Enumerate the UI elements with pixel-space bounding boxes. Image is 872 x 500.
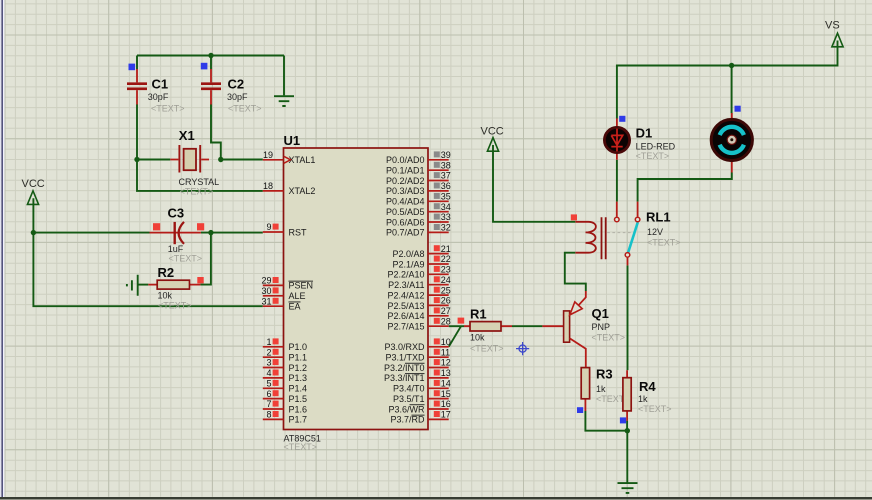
svg-text:7: 7 bbox=[266, 399, 271, 409]
svg-text:P1.5: P1.5 bbox=[289, 394, 308, 404]
wire R4 bottom stub bbox=[626, 421, 628, 431]
wire C1 stubs bbox=[136, 56, 138, 160]
resistor R1 bbox=[458, 307, 512, 354]
svg-text:P0.4/AD4: P0.4/AD4 bbox=[386, 197, 425, 207]
resistor R3 bbox=[577, 367, 630, 414]
ground (crystal net) bbox=[274, 96, 294, 106]
svg-text:<TEXT>: <TEXT> bbox=[151, 104, 185, 114]
junction node R3/R4/ground bbox=[625, 428, 630, 433]
relay RL1 labels bbox=[646, 210, 681, 248]
svg-text:P1.0: P1.0 bbox=[289, 342, 308, 352]
svg-text:P0.1/AD1: P0.1/AD1 bbox=[386, 166, 425, 176]
svg-text:P1.3: P1.3 bbox=[289, 373, 308, 383]
svg-text:<TEXT>: <TEXT> bbox=[169, 254, 203, 264]
svg-text:P2.0/A8: P2.0/A8 bbox=[392, 249, 424, 259]
capacitor C3 bbox=[150, 205, 205, 263]
pin 21 P2.0/A8 (right) bbox=[392, 244, 450, 259]
pin 32 P0.7/AD7 (right) bbox=[386, 223, 451, 238]
pin 33 P0.6/AD6 (right) bbox=[386, 212, 451, 227]
svg-text:ALE: ALE bbox=[289, 291, 306, 301]
pin 15 P3.5/T1 (right) bbox=[393, 389, 451, 404]
pin 14 P3.4/T0 (right) bbox=[393, 379, 451, 394]
svg-text:<TEXT>: <TEXT> bbox=[158, 301, 192, 311]
pin 31 EA (left) bbox=[261, 296, 300, 311]
svg-text:10k: 10k bbox=[470, 333, 485, 343]
svg-text:C1: C1 bbox=[152, 77, 169, 92]
svg-text:35: 35 bbox=[441, 192, 451, 202]
transistor Q1 PNP bbox=[542, 291, 625, 368]
svg-text:36: 36 bbox=[441, 181, 451, 191]
capacitor C1 bbox=[127, 64, 185, 114]
junction node C2 top bbox=[208, 53, 213, 58]
svg-text:P2.1/A9: P2.1/A9 bbox=[392, 259, 424, 269]
wire XTAL1 net bbox=[137, 159, 263, 161]
ground (bottom) bbox=[618, 483, 638, 493]
svg-text:1k: 1k bbox=[596, 384, 606, 394]
svg-text:XTAL1: XTAL1 bbox=[289, 155, 316, 165]
relay RL1 link (dashed) bbox=[607, 232, 633, 234]
svg-text:18: 18 bbox=[263, 181, 273, 191]
svg-text:23: 23 bbox=[441, 265, 451, 275]
wire motor to relay contact bbox=[638, 173, 732, 202]
pin 36 P0.3/AD3 (right) bbox=[386, 181, 451, 196]
relay RL1 core bbox=[602, 217, 606, 259]
svg-text:1k: 1k bbox=[638, 394, 648, 404]
svg-text:21: 21 bbox=[441, 244, 451, 254]
svg-text:P1.7: P1.7 bbox=[289, 415, 308, 425]
crystal X1 bbox=[170, 128, 219, 197]
svg-text:P3.1/TXD: P3.1/TXD bbox=[385, 353, 425, 363]
svg-text:1uF: 1uF bbox=[168, 244, 184, 254]
svg-text:R1: R1 bbox=[470, 307, 487, 322]
svg-text:31: 31 bbox=[261, 296, 271, 306]
svg-text:4: 4 bbox=[266, 368, 271, 378]
svg-text:8: 8 bbox=[266, 410, 271, 420]
svg-text:34: 34 bbox=[441, 202, 451, 212]
pin 1 P1.0 (left) bbox=[263, 337, 307, 352]
svg-text:<TEXT>: <TEXT> bbox=[228, 104, 262, 114]
svg-text:P0.6/AD6: P0.6/AD6 bbox=[386, 217, 425, 227]
svg-text:P2.3/A11: P2.3/A11 bbox=[388, 280, 424, 290]
wire XTAL top net bbox=[137, 56, 284, 96]
svg-text:17: 17 bbox=[441, 410, 451, 420]
pin 39 P0.0/AD0 (right) bbox=[386, 150, 451, 165]
svg-text:29: 29 bbox=[261, 276, 271, 286]
svg-text:LED-RED: LED-RED bbox=[636, 142, 676, 152]
wire junction to ground bbox=[626, 431, 628, 483]
svg-text:<TEXT>: <TEXT> bbox=[470, 344, 504, 354]
junction node VS/motor bbox=[729, 63, 734, 68]
relay RL1 contacts bbox=[615, 202, 640, 266]
pin 27 P2.6/A14 (right) bbox=[387, 306, 450, 321]
svg-text:<TEXT>: <TEXT> bbox=[636, 151, 670, 161]
wire VS net bbox=[617, 41, 838, 119]
svg-text:P0.0/AD0: P0.0/AD0 bbox=[386, 155, 425, 165]
wire XTAL2 net bbox=[137, 160, 263, 191]
svg-text:P1.1: P1.1 bbox=[289, 353, 308, 363]
pin 10 P3.0/RXD (right) bbox=[384, 337, 450, 352]
svg-text:P2.6/A14: P2.6/A14 bbox=[387, 311, 424, 321]
svg-text:P3.3/INT1: P3.3/INT1 bbox=[384, 373, 425, 383]
sheet left border bbox=[0, 0, 5, 497]
svg-text:P2.5/A13: P2.5/A13 bbox=[387, 301, 424, 311]
svg-text:C2: C2 bbox=[228, 77, 245, 92]
svg-text:<TEXT>: <TEXT> bbox=[180, 187, 214, 197]
pin 5 P1.4 (left) bbox=[263, 379, 307, 394]
svg-text:Q1: Q1 bbox=[592, 306, 609, 321]
svg-text:38: 38 bbox=[441, 160, 451, 170]
svg-text:11: 11 bbox=[441, 347, 450, 357]
svg-text:P3.6/WR: P3.6/WR bbox=[388, 404, 425, 414]
pin 25 P2.4/A12 (right) bbox=[387, 285, 450, 300]
svg-text:<TEXT>: <TEXT> bbox=[647, 238, 681, 248]
pin 18 XTAL2 (left) bbox=[263, 181, 316, 196]
pin 2 P1.1 (left) bbox=[263, 347, 307, 362]
junction node XTAL1 left bbox=[134, 157, 139, 162]
svg-text:P0.7/AD7: P0.7/AD7 bbox=[386, 228, 425, 238]
svg-text:C3: C3 bbox=[168, 205, 185, 220]
svg-text:25: 25 bbox=[441, 285, 451, 295]
pin 4 P1.3 (left) bbox=[263, 368, 307, 383]
pin 30 ALE (left) bbox=[261, 286, 305, 301]
pin 28 P2.7/A15 (right) bbox=[387, 316, 450, 331]
ground (R2, rotated left) bbox=[127, 275, 138, 296]
pin 8 P1.7 (left) bbox=[263, 410, 307, 425]
svg-text:2: 2 bbox=[266, 347, 271, 357]
svg-text:P3.5/T1: P3.5/T1 bbox=[393, 394, 425, 404]
svg-text:P2.7/A15: P2.7/A15 bbox=[387, 322, 424, 332]
wire R3 bottom to junction bbox=[585, 411, 627, 431]
svg-text:P1.2: P1.2 bbox=[289, 363, 308, 373]
pin 12 P3.2/INT0 (right) bbox=[384, 358, 451, 373]
svg-text:3: 3 bbox=[266, 358, 271, 368]
svg-text:PNP: PNP bbox=[592, 322, 611, 332]
svg-text:P2.2/A10: P2.2/A10 bbox=[387, 270, 424, 280]
svg-text:26: 26 bbox=[441, 296, 451, 306]
sheet bottom border bbox=[0, 497, 872, 500]
pin 38 P0.1/AD1 (right) bbox=[386, 160, 451, 175]
svg-text:5: 5 bbox=[266, 379, 271, 389]
svg-text:VS: VS bbox=[825, 20, 840, 32]
power VCC (left) bbox=[22, 178, 45, 204]
svg-text:P2.4/A12: P2.4/A12 bbox=[387, 290, 424, 300]
svg-text:14: 14 bbox=[441, 379, 451, 389]
svg-text:P3.2/INT0: P3.2/INT0 bbox=[384, 363, 425, 373]
pin 22 P2.1/A9 (right) bbox=[392, 254, 450, 269]
junction node RST/R2 bbox=[208, 230, 213, 235]
svg-text:12: 12 bbox=[441, 358, 451, 368]
svg-text:33: 33 bbox=[441, 212, 451, 222]
wire RST net bbox=[33, 233, 262, 285]
svg-text:R2: R2 bbox=[158, 265, 175, 280]
wire relay pole to R4 bbox=[627, 265, 629, 370]
pin 17 P3.7/RD (right) bbox=[390, 410, 450, 425]
svg-text:RST: RST bbox=[289, 227, 308, 237]
svg-text:9: 9 bbox=[266, 222, 271, 232]
svg-text:P0.5/AD5: P0.5/AD5 bbox=[386, 207, 425, 217]
svg-text:30pF: 30pF bbox=[227, 92, 248, 102]
power VCC (middle) bbox=[481, 126, 504, 152]
wire coil to Q1 emitter bbox=[565, 253, 586, 291]
pin 13 P3.3/INT1 (right) bbox=[384, 368, 451, 383]
pin 23 P2.2/A10 (right) bbox=[387, 265, 450, 280]
svg-text:37: 37 bbox=[441, 171, 451, 181]
wire D1 to relay contact bbox=[616, 160, 618, 202]
svg-text:16: 16 bbox=[441, 399, 451, 409]
op-amp U1 AT89C51 body bbox=[284, 133, 429, 452]
pin 9 RST (left) bbox=[263, 222, 307, 237]
pin 16 P3.6/WR (right) bbox=[388, 399, 450, 414]
svg-text:RL1: RL1 bbox=[646, 210, 671, 225]
svg-text:CRYSTAL: CRYSTAL bbox=[179, 177, 220, 187]
svg-text:28: 28 bbox=[441, 316, 451, 326]
svg-text:12V: 12V bbox=[647, 227, 663, 237]
svg-text:15: 15 bbox=[441, 389, 451, 399]
svg-text:13: 13 bbox=[441, 368, 451, 378]
svg-text:10k: 10k bbox=[158, 291, 173, 301]
svg-text:30: 30 bbox=[261, 286, 271, 296]
svg-text:X1: X1 bbox=[179, 128, 195, 143]
wire R2 to ground bbox=[138, 284, 149, 286]
svg-text:P0.2/AD2: P0.2/AD2 bbox=[386, 176, 425, 186]
svg-text:27: 27 bbox=[441, 306, 451, 316]
svg-text:U1: U1 bbox=[284, 133, 301, 148]
pin 24 P2.3/A11 (right) bbox=[388, 275, 451, 290]
wire pin10 diagonal bbox=[449, 326, 461, 347]
svg-text:10: 10 bbox=[441, 337, 451, 347]
junction node VCC/RST bbox=[31, 230, 36, 235]
pin 6 P1.5 (left) bbox=[263, 389, 307, 404]
wire R1 to Q1 base bbox=[512, 325, 542, 327]
svg-text:D1: D1 bbox=[636, 126, 653, 141]
svg-text:<TEXT>: <TEXT> bbox=[638, 404, 672, 414]
svg-text:R3: R3 bbox=[596, 367, 613, 382]
svg-text:VCC: VCC bbox=[481, 126, 504, 138]
svg-text:<TEXT>: <TEXT> bbox=[284, 442, 318, 452]
resistor R2 bbox=[148, 265, 203, 311]
svg-text:P1.4: P1.4 bbox=[289, 384, 308, 394]
svg-text:1: 1 bbox=[266, 337, 271, 347]
pin 7 P1.6 (left) bbox=[263, 399, 307, 414]
power VS bbox=[825, 20, 843, 47]
svg-text:6: 6 bbox=[266, 389, 271, 399]
wire VCC to relay coil bbox=[493, 145, 575, 222]
svg-text:P3.4/T0: P3.4/T0 bbox=[393, 384, 425, 394]
resistor R4 bbox=[620, 370, 672, 423]
svg-text:PSEN: PSEN bbox=[289, 281, 314, 291]
pin 11 P3.1/TXD (right) bbox=[385, 347, 450, 362]
wire pin28 to R1 bbox=[449, 325, 465, 327]
svg-text:P0.3/AD3: P0.3/AD3 bbox=[386, 186, 425, 196]
relay RL1 coil bbox=[571, 214, 596, 252]
svg-text:R4: R4 bbox=[639, 379, 656, 394]
pin 3 P1.2 (left) bbox=[263, 358, 307, 373]
svg-text:32: 32 bbox=[441, 223, 451, 233]
pin 35 P0.4/AD4 (right) bbox=[386, 192, 451, 207]
svg-text:P3.0/RXD: P3.0/RXD bbox=[384, 342, 425, 352]
svg-text:EA: EA bbox=[289, 302, 301, 312]
origin marker bbox=[516, 342, 529, 355]
wire motor top stub bbox=[731, 66, 733, 114]
svg-text:24: 24 bbox=[441, 275, 451, 285]
pin 37 P0.2/AD2 (right) bbox=[386, 171, 451, 186]
svg-text:22: 22 bbox=[441, 254, 451, 264]
svg-text:39: 39 bbox=[441, 150, 451, 160]
pin 29 PSEN (left) bbox=[261, 276, 313, 291]
svg-text:19: 19 bbox=[263, 150, 273, 160]
capacitor C2 bbox=[201, 63, 262, 114]
pin 19 XTAL1 (left) bbox=[263, 150, 316, 165]
svg-text:<TEXT>: <TEXT> bbox=[592, 333, 626, 343]
svg-text:P1.6: P1.6 bbox=[289, 404, 308, 414]
wire VCC to EA bbox=[33, 198, 262, 306]
svg-text:P3.7/RD: P3.7/RD bbox=[390, 415, 425, 425]
svg-text:30pF: 30pF bbox=[148, 92, 169, 102]
motor bbox=[711, 106, 752, 173]
pin 26 P2.5/A13 (right) bbox=[387, 296, 450, 311]
pin 34 P0.5/AD5 (right) bbox=[386, 202, 451, 217]
LED D1 bbox=[604, 116, 675, 161]
svg-text:XTAL2: XTAL2 bbox=[289, 186, 316, 196]
junction node XTAL1 right bbox=[218, 157, 223, 162]
svg-text:VCC: VCC bbox=[22, 178, 45, 190]
wire C2 stubs bbox=[211, 56, 221, 160]
